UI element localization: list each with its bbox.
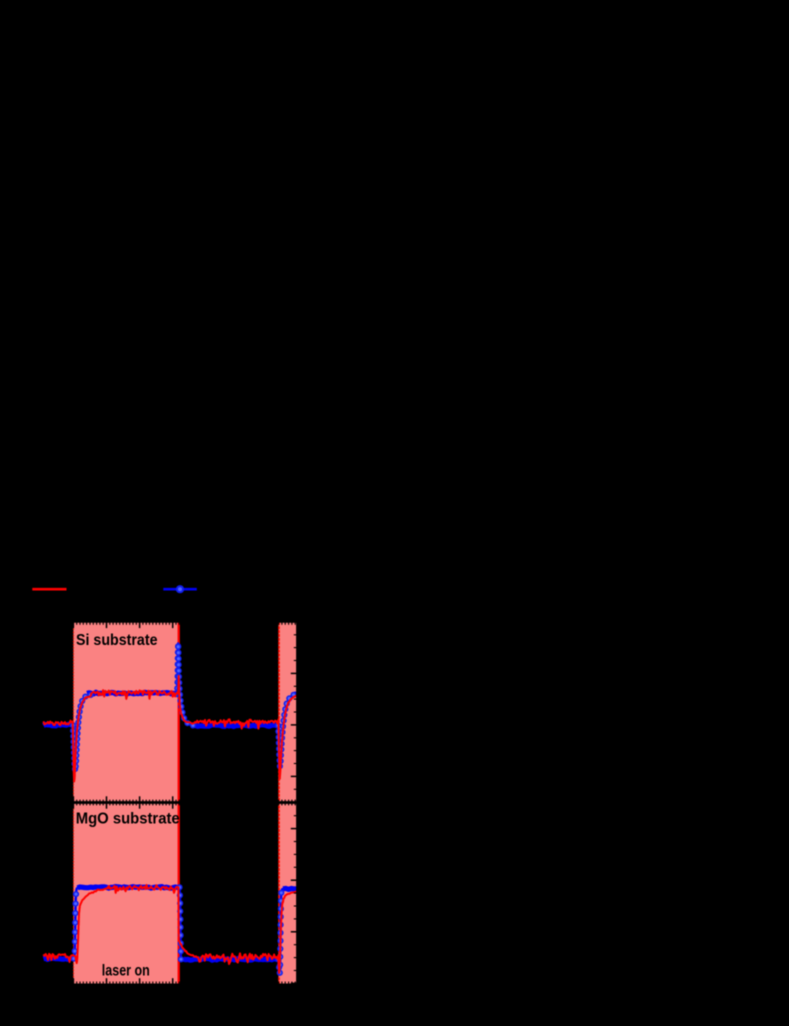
red edge, span2 left xyxy=(278,622,280,984)
x-axis minor ticks xyxy=(39,622,41,625)
pink laser-on span 1 xyxy=(73,622,178,984)
left spine xyxy=(39,622,41,985)
red solid edge, span1 right xyxy=(178,622,180,984)
y-axis ticks (right spine), top panel xyxy=(291,621,297,623)
y-axis ticks (right spine), bottom panel xyxy=(294,815,297,817)
red data trace, bottom panel (MgO) xyxy=(43,885,297,973)
blue circular markers on transitions xyxy=(70,643,297,976)
middle shared x-axis xyxy=(40,801,297,804)
red dashed edge, span1 left xyxy=(73,622,75,984)
legend blue line with marker xyxy=(163,588,197,591)
pink laser-on span 2 xyxy=(279,622,298,984)
x-axis major ticks xyxy=(39,622,41,628)
red data trace, top panel (Si) xyxy=(43,676,297,782)
blue data trace, top panel (Si) xyxy=(43,692,297,726)
blue data trace, bottom panel (MgO) xyxy=(43,887,297,961)
svg-text:Si substrate: Si substrate xyxy=(76,632,158,649)
legend red line xyxy=(32,588,66,591)
top spine xyxy=(40,621,297,623)
bottom spine xyxy=(40,983,297,985)
svg-text:MgO substrate: MgO substrate xyxy=(76,810,180,827)
right spine xyxy=(296,622,298,985)
svg-text:laser on: laser on xyxy=(102,962,150,979)
